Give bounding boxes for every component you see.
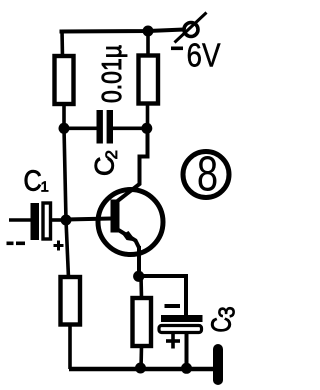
node C3 bottom junction <box>181 363 192 374</box>
svg-text:0.01µ: 0.01µ <box>96 45 127 103</box>
wire left rail to C2 node <box>62 103 66 129</box>
wire top rail <box>60 30 185 32</box>
wire left rail upper <box>60 30 64 58</box>
wire emitter resistor to bottom <box>139 346 143 369</box>
wire C3 to bottom <box>185 333 189 370</box>
label C2 (rotated) <box>90 150 122 176</box>
label C3 (rotated) <box>207 306 240 332</box>
transistor circle <box>98 190 163 255</box>
input open dash below <box>7 242 26 246</box>
resistor upper-right collector load <box>139 56 159 104</box>
svg-text:3: 3 <box>214 306 240 318</box>
wire emitter node to C3 <box>141 276 187 315</box>
wire collector feed with jog <box>118 128 148 201</box>
wire left rail mid <box>64 128 66 220</box>
svg-text:C: C <box>24 164 42 197</box>
wire right rail upper <box>146 30 150 57</box>
svg-text:2: 2 <box>102 150 121 159</box>
plus sign of C3 <box>166 334 180 349</box>
node C2 left junction <box>59 123 70 134</box>
wire C1 to base node <box>51 218 66 222</box>
node C2 right junction <box>141 123 152 134</box>
minus sign of C3 <box>165 304 181 308</box>
wire emitter down <box>137 246 141 277</box>
svg-text:1: 1 <box>41 179 49 196</box>
wire C2 left lead <box>64 127 97 131</box>
transistor emitter lead with arrow <box>116 229 139 249</box>
figure number 8 in circle <box>183 147 229 202</box>
label C1 <box>24 164 49 197</box>
resistor upper-left bias divider <box>55 56 74 104</box>
svg-text:8: 8 <box>197 147 218 202</box>
ground bar <box>213 344 223 385</box>
wire base lead from C1 node <box>66 219 111 220</box>
wire right rail resistor to node <box>146 103 150 129</box>
wire C2 right lead <box>113 127 147 131</box>
wire left rail lower <box>66 220 69 278</box>
capacitor C1 positive plate (hollow) <box>43 203 51 239</box>
node top-right junction <box>143 26 154 37</box>
terminal -6V supply (circle with slash) <box>175 13 207 43</box>
plus sign of C1 <box>54 241 64 251</box>
label -6V <box>171 37 221 74</box>
resistor emitter <box>133 298 152 346</box>
capacitor C2 plates <box>97 110 114 144</box>
svg-text:6V: 6V <box>187 37 221 74</box>
svg-text:C: C <box>207 317 237 332</box>
node C1 base junction <box>61 215 72 226</box>
wire left rail to bottom <box>68 324 72 369</box>
resistor lower-left bias divider <box>61 277 81 325</box>
capacitor C1 negative plate (solid) <box>31 203 40 240</box>
wire emitter node to resistor <box>139 276 143 298</box>
capacitor C3 top plate (solid) <box>161 315 203 322</box>
transistor base bar <box>111 200 120 233</box>
node emitter junction <box>133 271 144 282</box>
node emitter resistor bottom junction <box>135 363 146 374</box>
wire bottom rail <box>69 367 214 371</box>
wire input lead <box>9 218 31 222</box>
capacitor C3 bottom plate (hollow) <box>159 326 202 333</box>
